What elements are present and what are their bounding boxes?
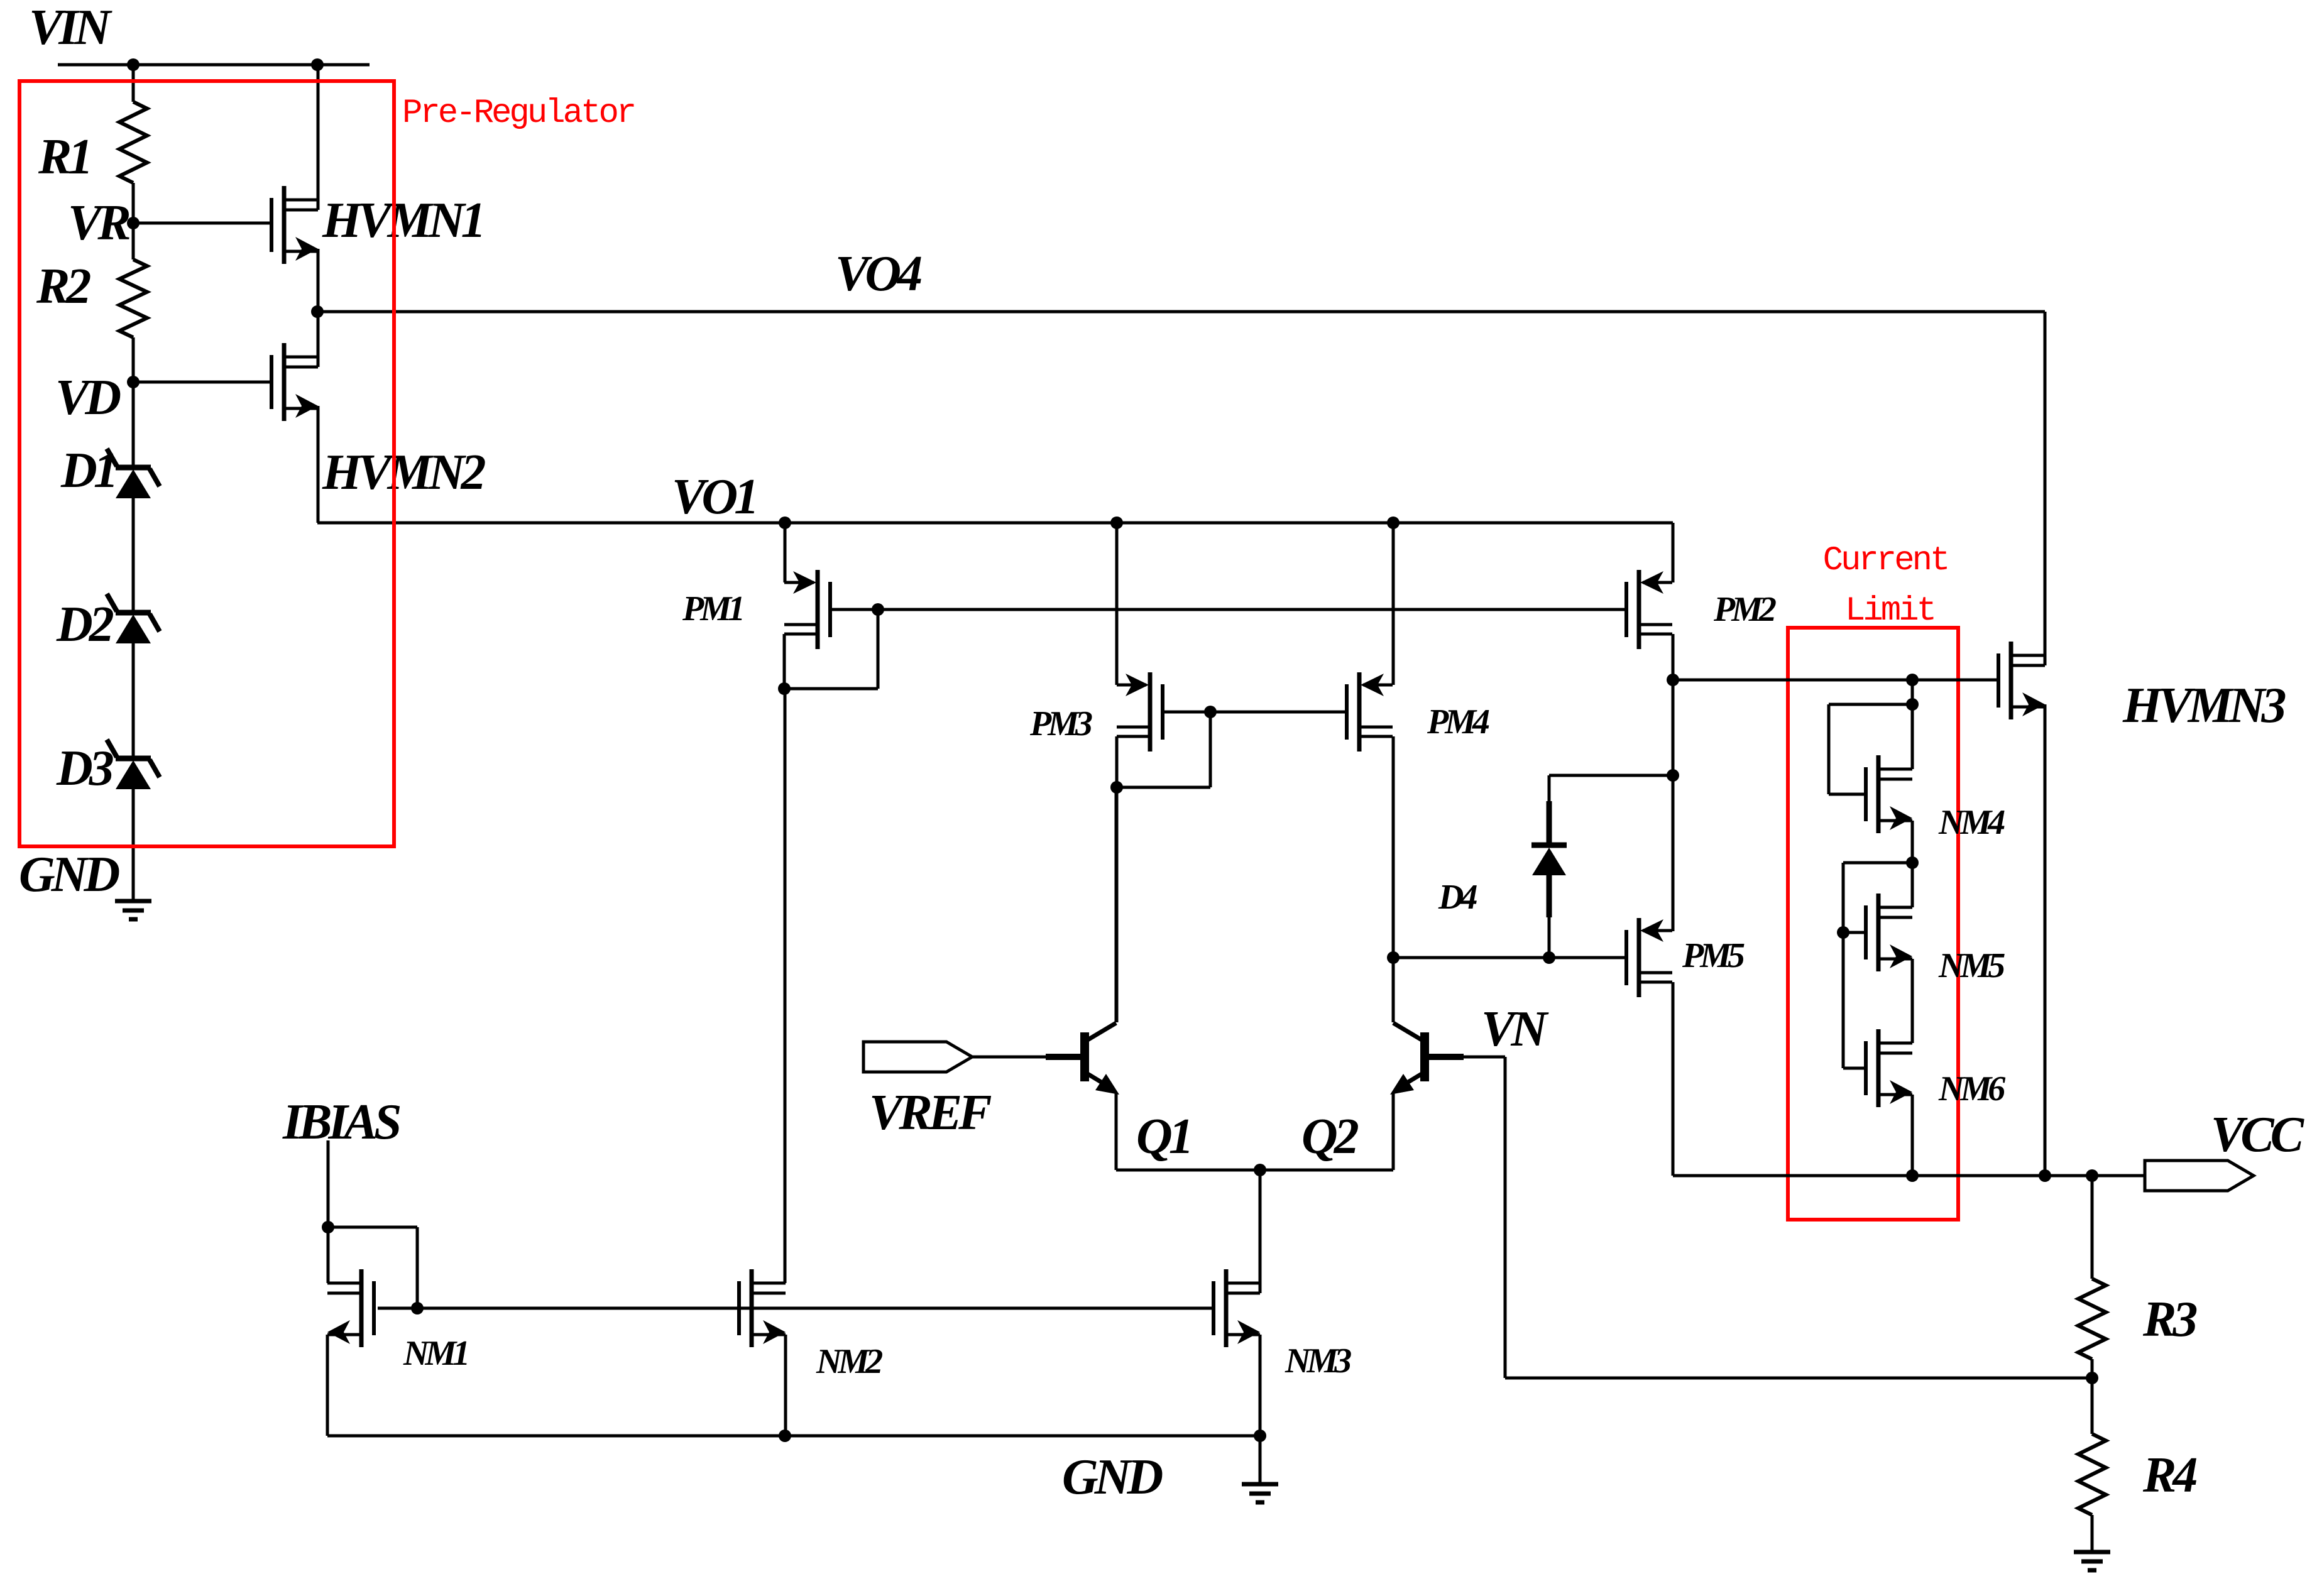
transistor PM2: [1637, 570, 1641, 649]
junction GND-NM2 source: [779, 1429, 791, 1442]
transistor HVMN2: [282, 343, 287, 421]
svg-text:PM5: PM5: [1682, 936, 1745, 975]
svg-text:R2: R2: [36, 259, 90, 314]
junction tail - NM3 drain: [1254, 1164, 1266, 1176]
svg-text:NM1: NM1: [403, 1334, 467, 1373]
wire PM3 drain to Q1 collector: [1115, 787, 1119, 1022]
svg-text:GND: GND: [1062, 1450, 1163, 1505]
wire HVMN2 source down: [317, 406, 320, 523]
red box Pre-Regulator: [19, 81, 394, 846]
junction VCC-R3: [2086, 1169, 2098, 1182]
wire VO4 down to HVMN3 drain: [2044, 312, 2047, 665]
wire NM4 drain column: [1911, 680, 1914, 769]
svg-text:VCC: VCC: [2211, 1107, 2305, 1162]
ground symbol left: [115, 899, 151, 904]
transistor PM3: [1148, 672, 1153, 752]
resistor R2: [132, 223, 135, 260]
wire HVMN2 drain: [317, 312, 320, 367]
junction PM1 gate: [872, 603, 884, 616]
wire VD to HVMN2 gate: [133, 381, 270, 384]
transistor HVMN1: [282, 186, 287, 264]
wire Q1 collector: [1115, 787, 1118, 1022]
transistor NM1: [359, 1269, 364, 1347]
svg-text:VO4: VO4: [835, 246, 921, 302]
wire PM3 drain diode loop: [1115, 736, 1119, 787]
wire PM1 source: [784, 523, 787, 582]
wire PM5 drain to VCC rail: [1672, 982, 1675, 1176]
svg-text:HVMN2: HVMN2: [322, 445, 485, 500]
transistor PM5: [1637, 918, 1641, 997]
transistor NM6: [1876, 1029, 1881, 1107]
resistor R4: [2091, 1378, 2094, 1434]
svg-text:GND: GND: [19, 847, 119, 902]
transistor Q1: [1080, 1032, 1089, 1081]
junction NM5 gate loop: [1906, 856, 1919, 869]
resistor R3: [2091, 1176, 2094, 1279]
transistor PM4: [1357, 672, 1362, 752]
zener diode D3: [116, 756, 151, 762]
svg-text:PM4: PM4: [1427, 702, 1489, 741]
transistor NM4: [1876, 755, 1881, 833]
wire GND rail: [327, 1435, 1260, 1438]
ground symbol bottom: [1242, 1482, 1278, 1487]
junction NM4 gate loop: [1906, 698, 1919, 711]
svg-text:PM3: PM3: [1029, 704, 1092, 743]
junction PM2 drain - HVMN3 gate wire: [1667, 674, 1679, 686]
junction VO1-PM3: [1110, 517, 1123, 529]
wire NM3 drain: [1259, 1170, 1262, 1293]
wire PM4 drain to Q2 collector: [1392, 736, 1395, 1022]
wire NM5-NM6 gate loop: [1843, 861, 1912, 865]
wire Q2 emitter: [1392, 1093, 1395, 1170]
svg-text:HVMN3: HVMN3: [2122, 678, 2285, 733]
svg-text:Q2: Q2: [1301, 1109, 1359, 1164]
node VO4: [311, 305, 324, 318]
svg-text:VREF: VREF: [869, 1085, 992, 1140]
junction VO1-PM4: [1387, 517, 1400, 529]
svg-text:NM4: NM4: [1938, 803, 2005, 842]
wire NM3 source to ground: [1259, 1436, 1262, 1484]
wire Q1 emitter: [1115, 1093, 1118, 1170]
junction R3-R4-VN: [2086, 1372, 2098, 1384]
svg-text:Current: Current: [1823, 542, 1948, 580]
svg-text:D2: D2: [56, 597, 114, 652]
svg-text:VD: VD: [55, 370, 120, 425]
wire Q2 base to VN: [1429, 1056, 1505, 1059]
io pin VCC: [2145, 1161, 2254, 1191]
wire PM2 drain: [1672, 634, 1675, 931]
wire VCC rail: [1673, 1174, 2145, 1178]
wire VREF to Q1 base: [972, 1056, 1080, 1059]
junction D4 anode: [1543, 951, 1555, 964]
zener diode D1: [132, 382, 135, 466]
wire NM4 source to NM5 drain: [1911, 821, 1914, 907]
junction gate wire - NM4 column: [1906, 674, 1919, 686]
wire NM1 gate loop: [328, 1226, 417, 1229]
wire PM1 drain diode loop: [783, 634, 786, 689]
svg-text:R3: R3: [2142, 1292, 2196, 1347]
wire NM4 gate loop: [1829, 793, 1864, 796]
wire PM2 drain to HVMN3 gate: [1673, 679, 1998, 682]
wire NM1-NM2-NM3 gate line: [378, 1307, 1212, 1310]
transistor HVMN3: [2009, 642, 2013, 719]
transistor NM2: [750, 1269, 754, 1347]
transistor NM3: [1224, 1269, 1229, 1347]
junction PM3 gate: [1204, 706, 1217, 718]
junction VCC-HVMN3: [2039, 1169, 2051, 1182]
node VR: [127, 217, 140, 229]
wire HVMN1 drain: [317, 65, 320, 210]
junction VIN-R1: [127, 58, 140, 71]
wire PM4 source: [1392, 523, 1395, 685]
wire NM3 source: [1259, 1335, 1262, 1436]
wire NM6 source to VCC rail: [1911, 1095, 1914, 1176]
junction GND-NM3 source: [1254, 1429, 1266, 1442]
svg-text:PM1: PM1: [682, 589, 742, 628]
svg-text:HVMN1: HVMN1: [322, 193, 483, 248]
wire tail rail: [1116, 1169, 1393, 1172]
wire VIN rail: [58, 63, 370, 67]
svg-text:Q1: Q1: [1136, 1109, 1190, 1164]
junction VCC-NM6: [1906, 1169, 1919, 1182]
wire PM1-PM2 gate line: [830, 608, 1628, 611]
svg-text:VO1: VO1: [672, 469, 755, 525]
wire NM5 source to NM6 drain: [1911, 959, 1914, 1043]
red box Current Limit: [1788, 628, 1958, 1220]
junction VO1-PM1: [779, 517, 791, 529]
svg-text:PM2: PM2: [1713, 590, 1776, 629]
wire NM1 source: [326, 1335, 329, 1436]
junction IBIAS-NM1 gate loop: [322, 1221, 334, 1233]
svg-text:D3: D3: [56, 741, 113, 796]
junction NM1 gate: [411, 1302, 424, 1315]
wire HVMN3 source to VCC rail: [2044, 704, 2047, 1176]
svg-text:D1: D1: [60, 443, 115, 498]
wire HVMN1 source to VO4 node: [317, 249, 320, 312]
node VD: [127, 376, 140, 388]
ground symbol right: [2074, 1550, 2110, 1555]
svg-text:D4: D4: [1438, 878, 1477, 917]
diode D4: [1549, 774, 1673, 777]
wire PM3 source: [1115, 523, 1119, 685]
transistor NM5: [1876, 894, 1881, 971]
zener diode D2: [116, 610, 151, 616]
junction NM5 gate: [1837, 926, 1849, 939]
wire Q2 collector: [1392, 787, 1395, 1022]
svg-text:R4: R4: [2142, 1448, 2196, 1503]
svg-text:Limit: Limit: [1845, 592, 1934, 630]
transistor PM1: [816, 570, 820, 649]
wire PM3-PM4 gate line: [1163, 711, 1347, 714]
junction PM4 drain - PM5 gate wire: [1387, 951, 1400, 964]
wire VO4 rail: [317, 310, 2045, 314]
io pin VREF: [863, 1042, 972, 1072]
wire IBIAS down to NM1 drain: [327, 1140, 330, 1283]
svg-text:NM2: NM2: [816, 1342, 882, 1381]
junction PM3 drain: [1110, 781, 1123, 794]
junction VIN-HVMN1 drain: [311, 58, 324, 71]
transistor Q2: [1420, 1032, 1429, 1081]
resistor R1: [132, 65, 135, 102]
svg-text:IBIAS: IBIAS: [282, 1095, 400, 1150]
junction PM1 drain: [778, 682, 791, 695]
wire VO1 rail: [317, 522, 1673, 525]
wire VR to HVMN1 gate: [133, 222, 270, 225]
svg-text:VR: VR: [68, 195, 129, 251]
svg-text:NM5: NM5: [1938, 946, 2005, 985]
svg-text:VIN: VIN: [29, 0, 112, 55]
svg-text:NM3: NM3: [1285, 1342, 1351, 1380]
wire PM4 drain to PM5 gate: [1393, 956, 1625, 959]
svg-text:VN: VN: [1481, 1002, 1549, 1057]
svg-text:R1: R1: [38, 129, 89, 185]
wire VO1 corner to PM2 source: [1672, 523, 1675, 582]
svg-text:NM6: NM6: [1938, 1069, 2005, 1108]
wire NM2 source: [784, 1335, 787, 1436]
junction PM2 drain - D4: [1667, 769, 1679, 782]
wire PM1 drain to NM2 drain: [784, 689, 787, 1283]
svg-text:Pre-Regulator: Pre-Regulator: [402, 94, 634, 133]
